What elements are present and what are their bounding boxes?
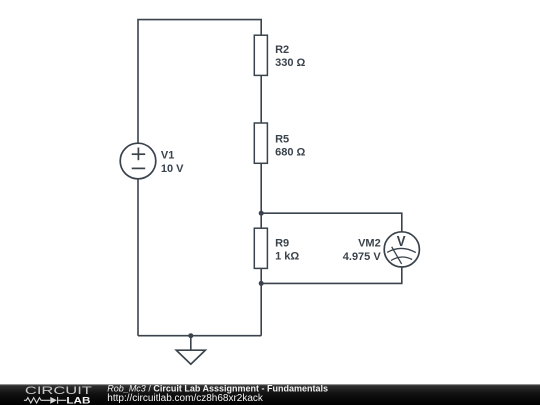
node junction R5/R9 voltmeter tap xyxy=(259,211,264,216)
svg-text:V: V xyxy=(397,233,406,250)
logo resistor zigzag and diode xyxy=(24,397,66,404)
svg-text:V1: V1 xyxy=(161,150,174,162)
node junction R9 bottom voltmeter tap xyxy=(259,281,264,286)
node junction ground xyxy=(188,333,193,338)
footer bar xyxy=(0,384,540,405)
ground xyxy=(176,350,205,364)
wire top rail xyxy=(138,20,261,144)
svg-text:R5: R5 xyxy=(275,133,289,145)
voltmeter VM2 xyxy=(384,232,419,267)
svg-text:VM2: VM2 xyxy=(358,238,381,250)
svg-text:4.975 V: 4.975 V xyxy=(343,251,382,263)
svg-text:680 Ω: 680 Ω xyxy=(275,146,305,158)
wire R9 to bottom xyxy=(260,268,262,336)
wire R5 to R9 xyxy=(260,163,262,228)
label R2 value xyxy=(275,44,305,69)
label R9 value xyxy=(275,238,299,263)
svg-text:R9: R9 xyxy=(275,238,289,250)
svg-text:R2: R2 xyxy=(275,44,289,56)
wire voltmeter bottom xyxy=(261,266,402,283)
wire bottom rail xyxy=(138,335,261,337)
svg-text:http://circuitlab.com/cz8h68xr: http://circuitlab.com/cz8h68xr2kack xyxy=(107,393,264,404)
wire left rail lower xyxy=(137,179,139,336)
CircuitLab logo wordmark xyxy=(24,385,92,405)
ground stub wire xyxy=(190,336,192,350)
label V1 value xyxy=(161,150,184,175)
label R5 value xyxy=(275,133,305,158)
wire voltmeter top xyxy=(261,213,402,232)
voltage source V1 xyxy=(120,143,156,179)
resistor R5 xyxy=(254,123,267,163)
wire R2 to R5 xyxy=(260,75,262,123)
svg-text:330 Ω: 330 Ω xyxy=(275,57,305,69)
svg-text:1 kΩ: 1 kΩ xyxy=(275,251,299,263)
label VM2 value xyxy=(343,238,382,263)
svg-text:LAB: LAB xyxy=(66,394,90,405)
resistor R9 xyxy=(254,228,267,268)
resistor R2 xyxy=(254,35,267,75)
svg-text:10 V: 10 V xyxy=(161,163,184,175)
